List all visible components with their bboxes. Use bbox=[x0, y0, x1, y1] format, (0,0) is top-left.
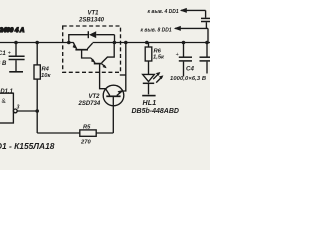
node junction dot VT2 emitter riser bbox=[124, 41, 128, 45]
svg-text:R5: R5 bbox=[83, 125, 91, 131]
svg-text:R6: R6 bbox=[154, 48, 162, 54]
node junction dot C4 top bbox=[182, 41, 186, 45]
arrow to pin 4 DD1 bbox=[148, 8, 206, 18]
arrow to pin 8 DD1 bbox=[141, 26, 209, 43]
dashed box VT1 module bbox=[63, 26, 121, 72]
wire R5 to VT2 base bbox=[96, 132, 113, 134]
svg-text:C1: C1 bbox=[0, 51, 6, 57]
resistor R4 10k bbox=[34, 43, 51, 134]
svg-text:C4: C4 bbox=[186, 66, 194, 73]
svg-text:VT1: VT1 bbox=[88, 11, 100, 17]
wire bottom to R5 bbox=[37, 132, 80, 134]
node junction dot C1 top bbox=[14, 41, 18, 45]
svg-text:R4: R4 bbox=[42, 67, 50, 73]
svg-text:D1 - К155ЛА18: D1 - К155ЛА18 bbox=[0, 141, 55, 151]
svg-text:1,5к: 1,5к bbox=[153, 55, 165, 61]
node junction dot base input bbox=[67, 41, 71, 45]
svg-text:DB5b-448ABD: DB5b-448ABD bbox=[132, 108, 179, 115]
svg-text:270: 270 bbox=[80, 140, 91, 146]
svg-text:1000,0×6,3 В: 1000,0×6,3 В bbox=[170, 76, 206, 82]
svg-text:6 В: 6 В bbox=[0, 61, 7, 67]
ground bar under C1 bbox=[9, 71, 23, 73]
capacitor top-right (cut at edge) bbox=[201, 18, 210, 28]
svg-text:+: + bbox=[176, 52, 179, 58]
node junction dot R4 top bbox=[35, 41, 39, 45]
wire main +rail right segment bbox=[93, 42, 210, 44]
svg-text:к выв. 4 DD1: к выв. 4 DD1 bbox=[148, 9, 179, 15]
transistor Q-B (output, inside VT1 box) bbox=[91, 43, 114, 89]
svg-text:2SD734: 2SD734 bbox=[78, 101, 101, 107]
diode VD internal (cathode bar left, triangle apex left) bbox=[88, 31, 114, 42]
LED HL1 bbox=[142, 72, 163, 96]
svg-text:2400 4 A: 2400 4 A bbox=[0, 27, 25, 34]
svg-text:2SB1340: 2SB1340 bbox=[78, 17, 105, 23]
node junction dot gate output bbox=[35, 109, 39, 113]
svg-text:&: & bbox=[2, 98, 7, 105]
node junction dot R6 top bbox=[145, 41, 149, 45]
capacitor C4 electrolytic bbox=[170, 43, 206, 83]
svg-text:3: 3 bbox=[17, 105, 20, 111]
wire VT2 emitter riser to rail bbox=[120, 43, 126, 92]
resistor R6 1,5k bbox=[145, 43, 165, 75]
svg-text:10к: 10к bbox=[41, 73, 51, 79]
svg-text:к выв. 8 DD1: к выв. 8 DD1 bbox=[141, 28, 172, 34]
wire main +rail left segment bbox=[0, 42, 74, 44]
svg-text:VT2: VT2 bbox=[89, 94, 101, 100]
capacitor C1 bbox=[0, 43, 25, 72]
transistor VT2 body bbox=[103, 85, 124, 133]
capacitor right (cut at edge) bbox=[200, 43, 211, 74]
svg-text:HL1: HL1 bbox=[143, 100, 157, 107]
node junction dot diode/collector bbox=[113, 41, 117, 45]
wire jog up to internal diode bbox=[69, 35, 88, 43]
logic gate DD1.1 bbox=[0, 89, 37, 123]
transistor Q-A (driver, inside VT1 box) bbox=[73, 43, 93, 59]
node junction dot C5 top bbox=[205, 41, 209, 45]
resistor R5 270 bbox=[80, 125, 96, 146]
